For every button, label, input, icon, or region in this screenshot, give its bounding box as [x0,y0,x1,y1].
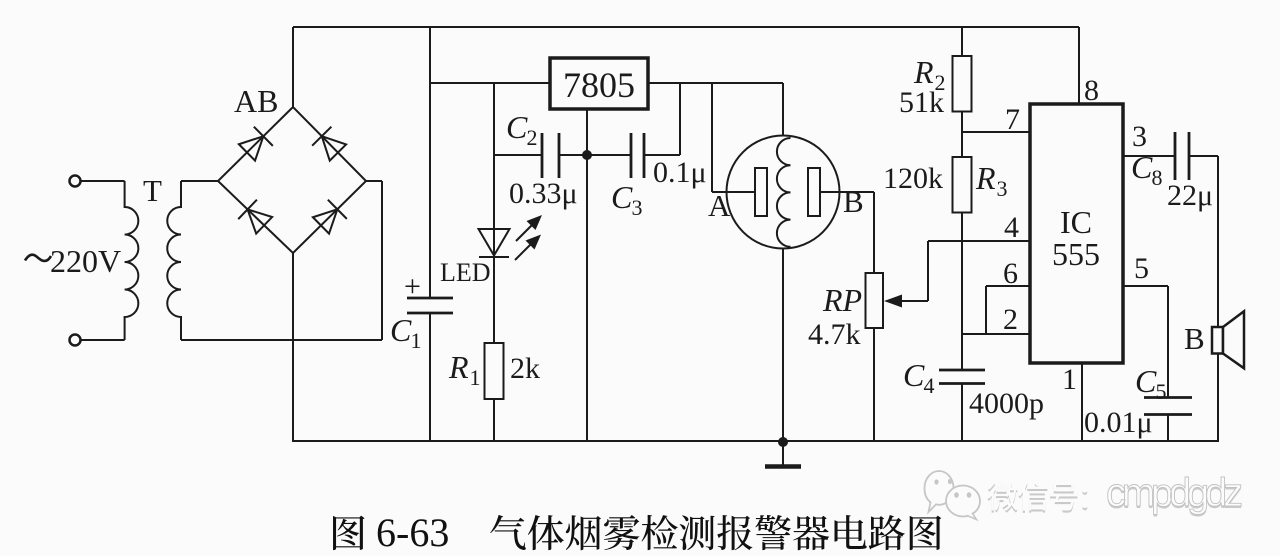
svg-text:5: 5 [1134,252,1149,285]
svg-text:1: 1 [1062,363,1077,396]
svg-text:4: 4 [923,373,934,398]
svg-text:R: R [448,349,469,385]
svg-text:IC: IC [1060,204,1092,240]
svg-text:5: 5 [1155,379,1166,404]
svg-text:C: C [1135,363,1157,399]
svg-text:3: 3 [631,195,642,220]
svg-text:7: 7 [1005,103,1020,136]
svg-text:C: C [506,109,528,145]
svg-text:0.1μ: 0.1μ [653,156,707,189]
svg-text:LED: LED [440,258,491,287]
svg-text:555: 555 [1052,236,1100,272]
svg-text:RP: RP [822,282,862,318]
svg-text:6-63: 6-63 [376,510,449,555]
svg-text:R: R [913,54,934,90]
svg-text:1: 1 [469,365,480,390]
svg-text:4.7k: 4.7k [808,318,861,351]
svg-text:22μ: 22μ [1167,179,1213,212]
svg-text:120k: 120k [883,162,943,195]
svg-text:4000p: 4000p [969,387,1044,420]
svg-text:3: 3 [996,176,1007,201]
svg-text:C: C [1131,149,1153,185]
svg-text:0.01μ: 0.01μ [1084,406,1153,439]
svg-text:cmpdgdz: cmpdgdz [1106,471,1242,515]
svg-text:R: R [975,160,996,196]
svg-text:1: 1 [410,328,421,353]
svg-text:C: C [390,312,412,348]
svg-text:2: 2 [526,125,537,150]
svg-text:0.33μ: 0.33μ [509,177,578,210]
svg-text:2: 2 [1003,303,1018,336]
svg-text:AB: AB [234,83,278,119]
svg-text:T: T [143,173,162,208]
svg-text:A: A [708,188,731,223]
svg-text:4: 4 [1004,211,1019,244]
svg-text:2k: 2k [510,352,540,385]
svg-text:8: 8 [1151,165,1162,190]
svg-text:220V: 220V [50,243,121,279]
svg-text:B: B [1184,321,1205,356]
svg-text:+: + [404,270,421,303]
svg-text:C: C [611,179,633,215]
svg-text:B: B [843,184,864,219]
svg-text:6: 6 [1003,257,1018,290]
svg-text:7805: 7805 [563,65,635,105]
svg-text:51k: 51k [899,86,944,119]
svg-text:C: C [903,357,925,393]
svg-text:8: 8 [1084,74,1099,107]
